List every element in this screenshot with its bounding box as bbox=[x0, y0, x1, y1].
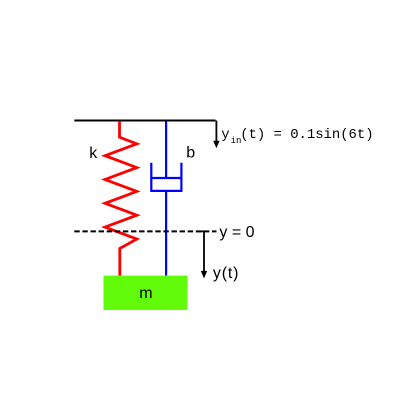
label m on mass bbox=[139, 285, 152, 302]
label y = 0 bbox=[219, 224, 254, 241]
mass m (green block) bbox=[104, 276, 188, 310]
dashed reference line y=0 bbox=[74, 230, 216, 232]
svg-text:m: m bbox=[139, 285, 152, 302]
svg-text:k: k bbox=[89, 145, 98, 162]
damper b piston plate bbox=[151, 177, 181, 179]
label b bbox=[186, 145, 195, 162]
svg-text:y = 0: y = 0 bbox=[219, 224, 254, 241]
fixed support top line bbox=[74, 119, 215, 121]
svg-text:y: y bbox=[221, 127, 229, 143]
label: equation y_in(t) = 0.1sin(6t) bbox=[221, 127, 373, 146]
damper b bottom rod bbox=[165, 191, 167, 276]
arrow y_in(t) at top right bbox=[213, 121, 219, 149]
spring k (red zigzag) bbox=[105, 121, 137, 276]
svg-text:b: b bbox=[186, 145, 195, 162]
damper b cylinder cup bbox=[151, 163, 181, 191]
damper b top rod bbox=[165, 121, 167, 178]
label k bbox=[89, 145, 98, 162]
label y(t) bbox=[213, 265, 239, 282]
svg-text:(t) = 0.1sin(6t): (t) = 0.1sin(6t) bbox=[240, 127, 373, 143]
arrow y(t) below dashed line bbox=[196, 231, 207, 278]
svg-text:y(t): y(t) bbox=[213, 265, 239, 282]
